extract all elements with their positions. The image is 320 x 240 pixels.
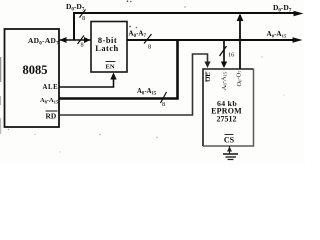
svg-text:CS: CS	[224, 136, 235, 145]
svg-text:8: 8	[81, 42, 84, 49]
svg-text:RD: RD	[46, 112, 57, 121]
svg-text:AD0-AD7: AD0-AD7	[28, 36, 59, 47]
svg-text:8: 8	[162, 101, 165, 108]
svg-text:EN: EN	[106, 64, 115, 71]
svg-text:A0-A15: A0-A15	[221, 71, 228, 90]
svg-text:ALE: ALE	[43, 84, 59, 91]
svg-text:Latch: Latch	[95, 44, 118, 53]
svg-text:8: 8	[82, 15, 85, 22]
svg-text:8085: 8085	[23, 63, 48, 77]
svg-text:8: 8	[148, 44, 151, 51]
svg-text:16: 16	[228, 52, 234, 59]
svg-text:O0-O7: O0-O7	[236, 70, 243, 87]
svg-text:27512: 27512	[217, 115, 237, 124]
